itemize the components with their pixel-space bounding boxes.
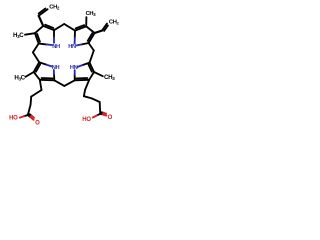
svg-text:H3C: H3C: [13, 32, 24, 39]
svg-text:O: O: [108, 115, 113, 121]
svg-text:HO: HO: [9, 116, 18, 122]
svg-text:O: O: [35, 120, 40, 126]
svg-text:NH: NH: [52, 44, 60, 50]
svg-text:HN: HN: [68, 44, 76, 50]
svg-text:CH2: CH2: [49, 4, 60, 10]
svg-text:CH2: CH2: [109, 19, 120, 25]
svg-text:NH: NH: [52, 65, 60, 71]
svg-text:HN: HN: [70, 65, 78, 71]
svg-text:CH3: CH3: [86, 11, 97, 17]
svg-text:H3C: H3C: [14, 74, 25, 81]
svg-text:HO: HO: [82, 117, 91, 123]
